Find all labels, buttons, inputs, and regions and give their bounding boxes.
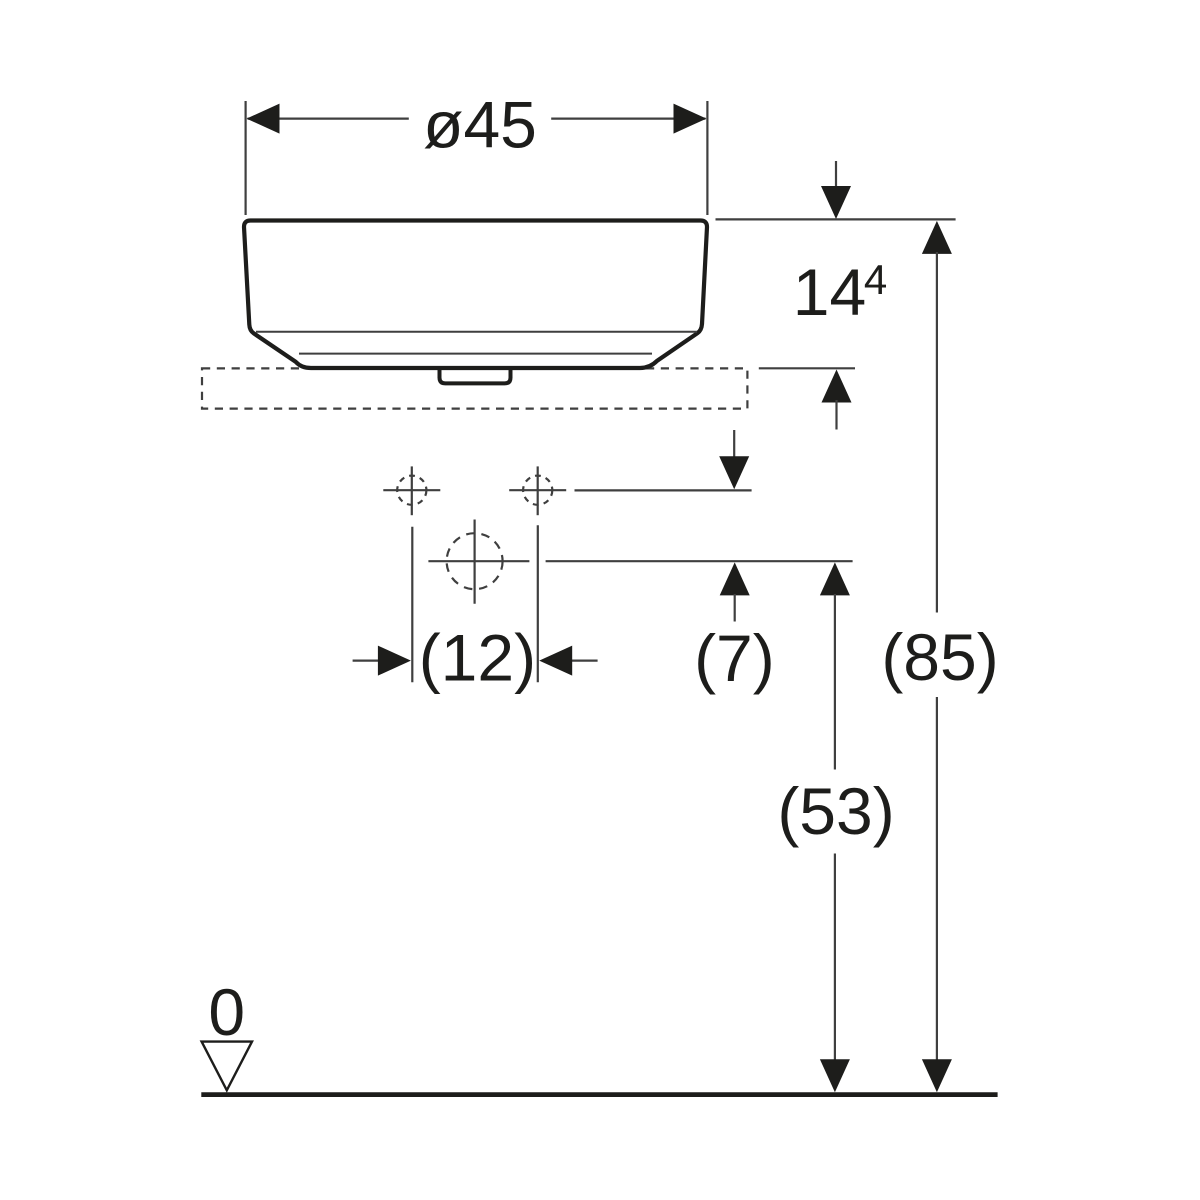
svg-text:(12): (12) (419, 621, 536, 695)
svg-text:0: 0 (208, 975, 245, 1049)
svg-text:ø45: ø45 (423, 88, 537, 162)
svg-text:(85): (85) (881, 620, 998, 694)
svg-text:4: 4 (864, 256, 887, 303)
svg-text:14: 14 (793, 255, 866, 329)
svg-text:(7): (7) (694, 621, 775, 695)
svg-text:(53): (53) (777, 774, 894, 848)
